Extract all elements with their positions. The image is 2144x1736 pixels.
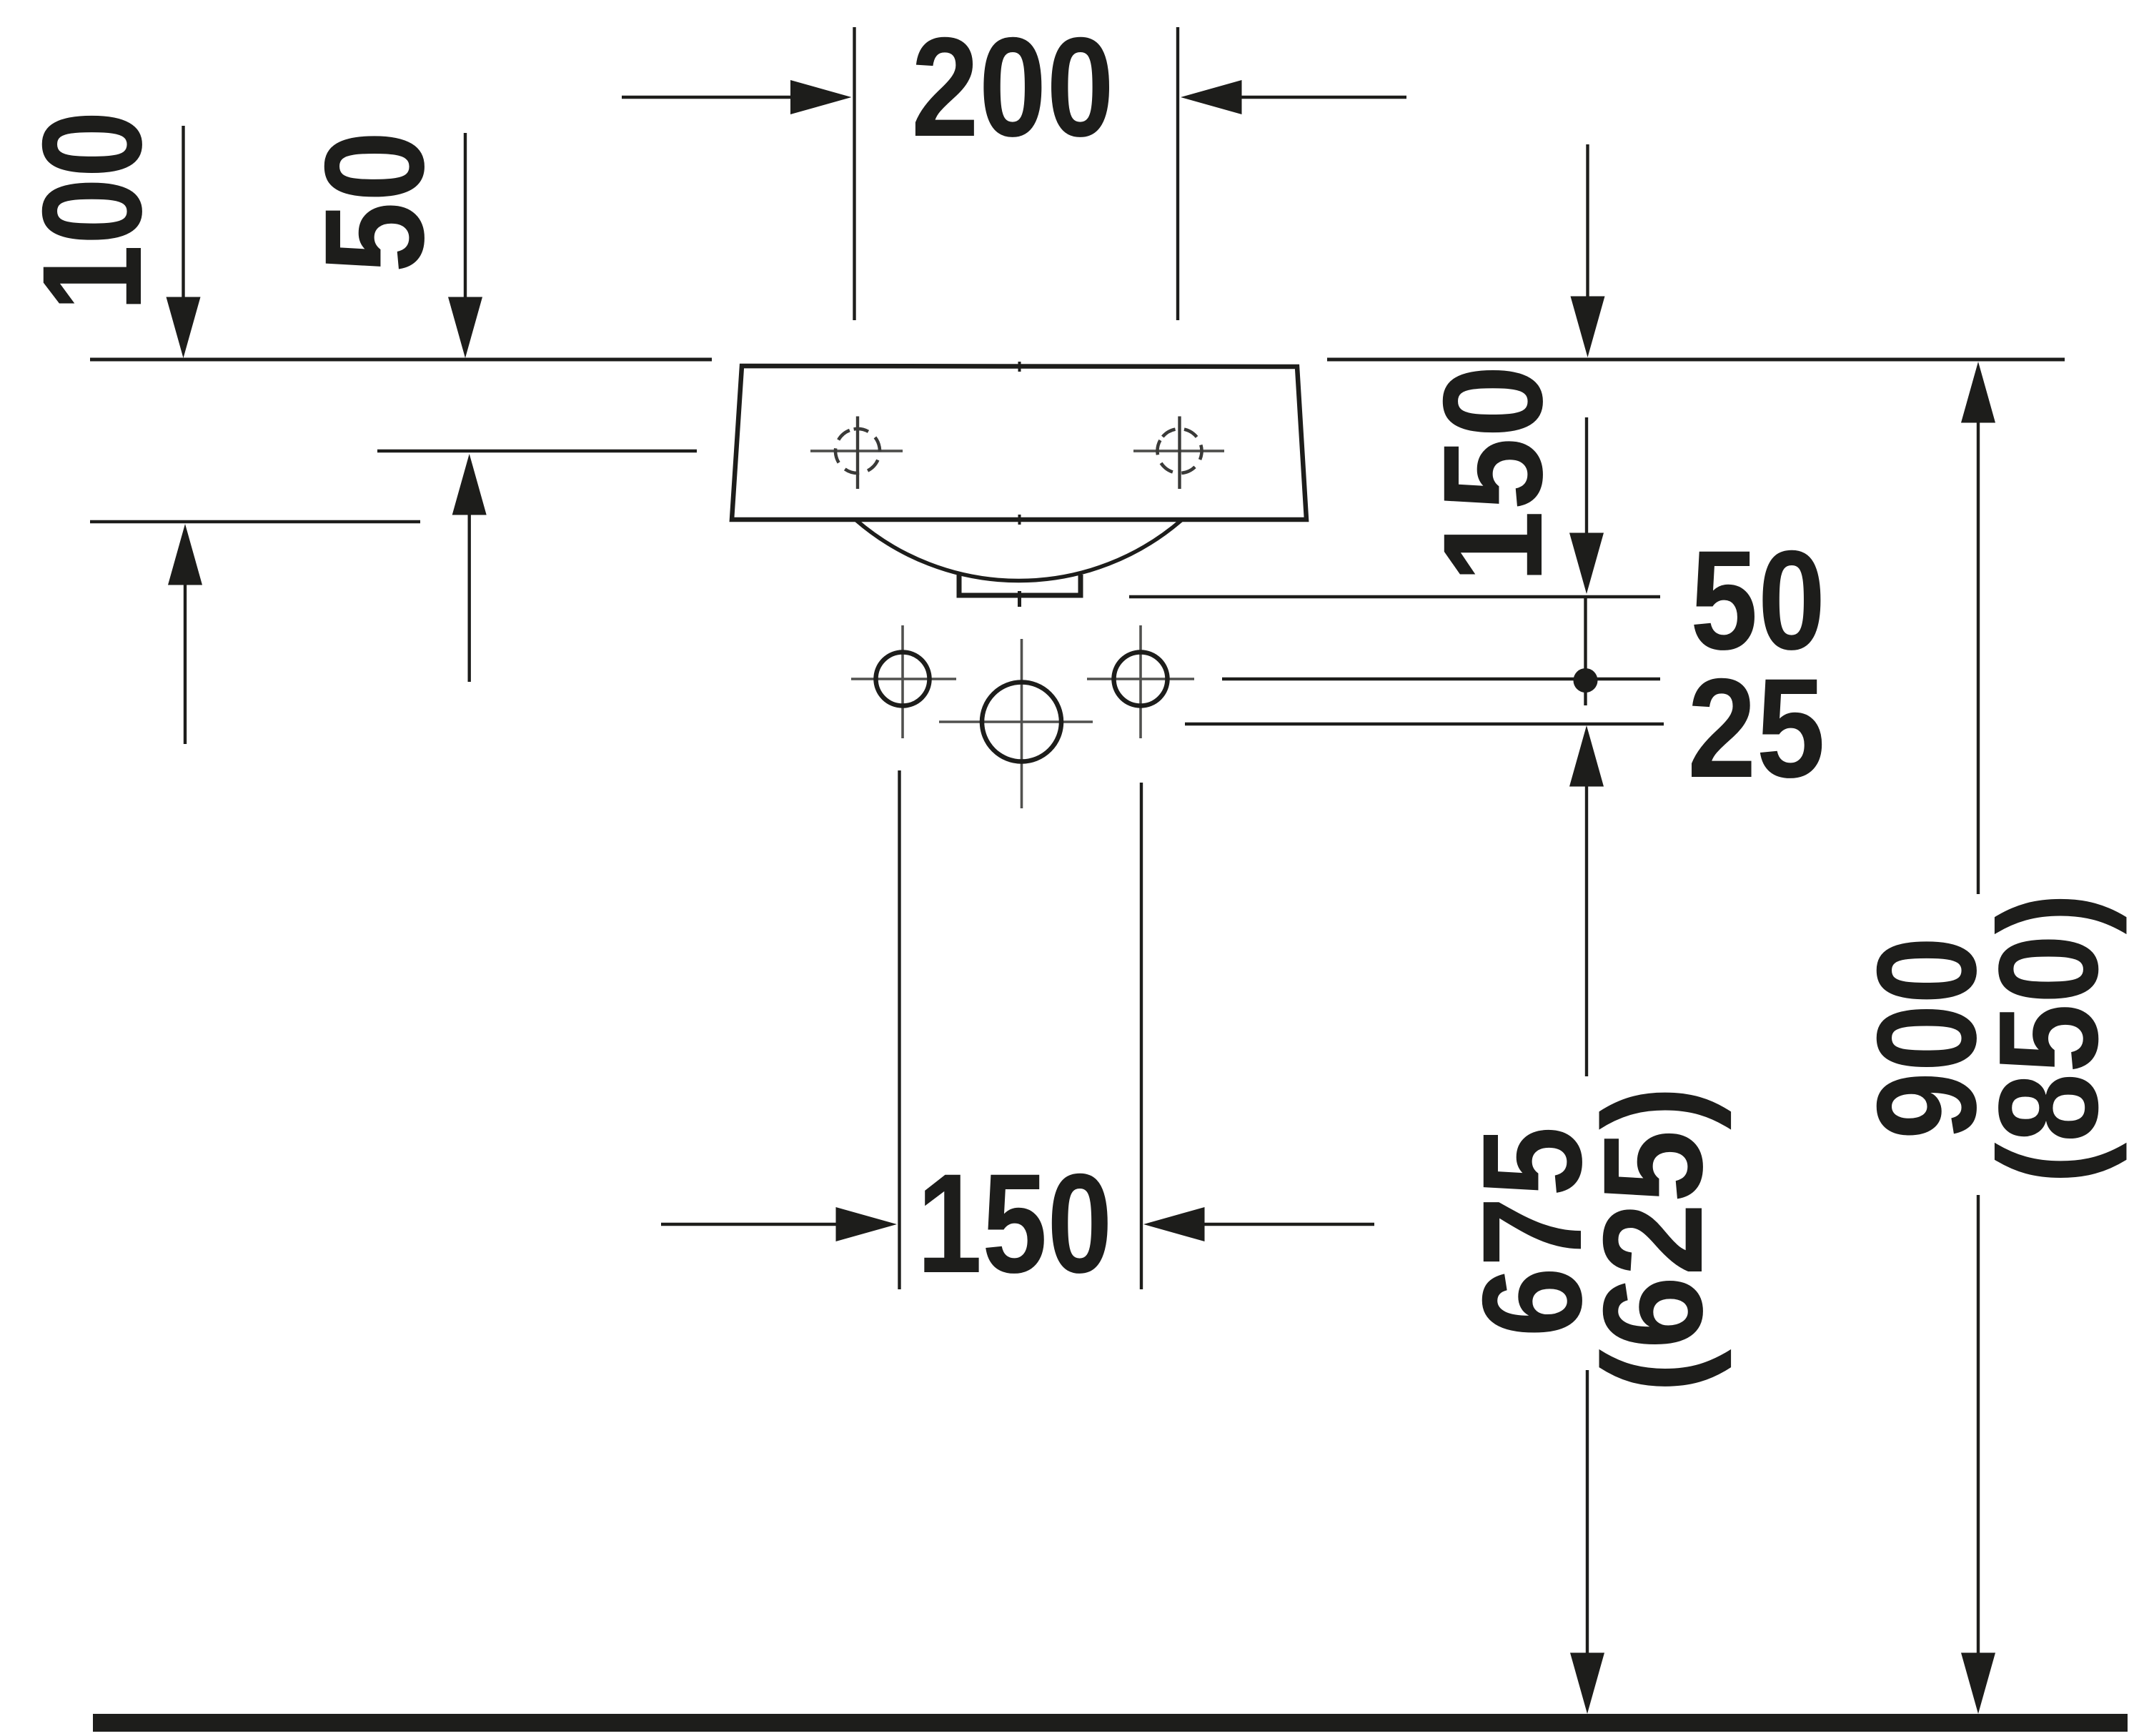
50 reference line (mid left) xyxy=(377,450,697,452)
200 dim left arrow xyxy=(622,80,852,114)
sink bowl arc xyxy=(855,520,1182,581)
drain level reference line (right) xyxy=(1129,595,1660,598)
675 dim lower line and down arrow xyxy=(1570,1370,1604,1714)
small holes level reference line (right) xyxy=(1222,678,1660,680)
100 reference line (lower left) xyxy=(90,520,420,523)
900 dim lower line and down arrow xyxy=(1961,1195,1995,1714)
drain box center tick xyxy=(1018,591,1021,607)
mounting hole right xyxy=(1087,625,1194,738)
sink center tick bottom xyxy=(1018,515,1021,525)
25 dim up arrow / 675 chain top xyxy=(1569,725,1604,1076)
900 dim up arrow xyxy=(1961,362,1995,894)
extension line left of 200 dim xyxy=(853,27,855,320)
bottom 150 dim extension line left xyxy=(898,770,900,1289)
sink body trapezoid xyxy=(732,366,1306,520)
svg-text:(850): (850) xyxy=(1969,893,2127,1184)
bottom 150 dim extension line right xyxy=(1140,783,1143,1289)
wall rim reference line (left segment) xyxy=(90,358,712,362)
svg-text:150: 150 xyxy=(1414,365,1572,584)
bottom 150 dim right arrow xyxy=(1143,1207,1374,1241)
sink center tick top xyxy=(1018,362,1021,372)
50 dim up arrow xyxy=(452,454,487,682)
floor line xyxy=(93,1714,2128,1732)
150 dim top down arrow xyxy=(1571,144,1605,357)
150 dim bottom down arrow xyxy=(1569,417,1604,594)
svg-text:25: 25 xyxy=(1687,649,1825,807)
dimension label 675 (625) rotated xyxy=(1453,1086,1732,1394)
extension line right of 200 dim xyxy=(1176,27,1179,320)
svg-text:200: 200 xyxy=(911,8,1114,166)
50/25 dim connector with dot xyxy=(1574,598,1598,705)
200 dim right arrow xyxy=(1181,80,1406,114)
drain hole level reference line (right) xyxy=(1185,723,1664,725)
svg-text:100: 100 xyxy=(13,111,171,312)
svg-text:(625): (625) xyxy=(1574,1086,1732,1394)
100 dim down arrow xyxy=(167,126,201,358)
faucet hole crosshair left xyxy=(810,417,903,490)
faucet hole crosshair right xyxy=(1133,417,1224,490)
drain pipe hole center xyxy=(939,639,1093,808)
wall rim reference line (right segment) xyxy=(1327,358,2065,362)
mounting hole left xyxy=(851,625,956,738)
100 dim up arrow xyxy=(168,524,202,744)
svg-text:50: 50 xyxy=(295,131,453,273)
bottom 150 dim left arrow xyxy=(661,1207,897,1241)
dimension label 900 (850) rotated xyxy=(1847,893,2127,1184)
50 dim down arrow xyxy=(448,133,482,358)
svg-text:150: 150 xyxy=(917,1144,1113,1302)
drain / overflow box xyxy=(959,575,1081,595)
